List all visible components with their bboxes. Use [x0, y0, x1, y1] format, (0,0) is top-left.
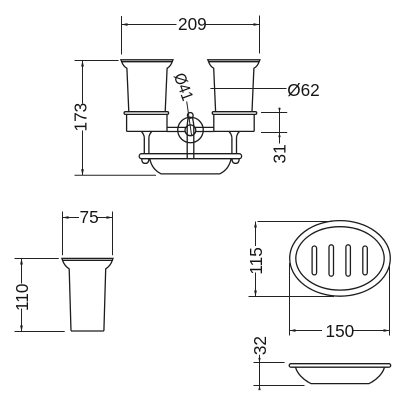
- dimension 209 extension line left: [121, 16, 123, 55]
- dimension D62 text: [287, 80, 320, 100]
- dimension 173 text: [70, 103, 90, 132]
- dimension 31 extension top: [261, 112, 287, 114]
- svg-text:110: 110: [12, 284, 32, 311]
- center neck and post: [187, 118, 194, 159]
- dimension 32 extension top: [254, 362, 285, 364]
- dimension 32 arrow bottom: [258, 386, 260, 391]
- slot 2: [329, 245, 334, 276]
- dimension 209 line: [122, 24, 260, 26]
- dimension 115 arrow top: [254, 222, 257, 228]
- right foot nut: [232, 159, 239, 164]
- dimension 173 arrow top: [81, 61, 84, 67]
- dimension 110 arrow top: [20, 259, 23, 265]
- dimension 115 line: [255, 222, 257, 297]
- soap dish outer ellipse: [290, 221, 391, 297]
- dimension 75 extension left: [62, 212, 64, 256]
- right support post: [232, 137, 237, 153]
- dimension 110 extension bottom: [15, 331, 65, 333]
- center ball finial: [187, 113, 193, 119]
- right tumbler body left side: [209, 62, 216, 112]
- left foot nut: [142, 159, 149, 164]
- single tumbler rim: [62, 258, 113, 260]
- right tumbler body right side: [252, 62, 259, 112]
- mounting bar: [139, 154, 241, 159]
- dimension 31 line: [279, 108, 281, 144]
- dimension 150 arrow left: [290, 329, 296, 332]
- dimension D41 leader: [187, 101, 192, 136]
- dimension 209 arrow left: [122, 23, 128, 26]
- left holder ring: [127, 114, 167, 131]
- right funnel under ring: [229, 132, 239, 138]
- left arm: [167, 127, 186, 131]
- svg-text:115: 115: [246, 247, 266, 274]
- dimension 209 text: [178, 14, 207, 34]
- dimension 32 text: [250, 336, 270, 355]
- left holder collar: [124, 112, 169, 115]
- boss circle: [185, 125, 196, 136]
- dimension 31 extension bottom: [261, 132, 287, 134]
- dimension 75 line: [63, 217, 113, 219]
- dimension 75 arrow left: [63, 216, 69, 219]
- dimension 173 line: [82, 61, 84, 176]
- svg-text:Ø41: Ø41: [170, 71, 196, 103]
- dimension 115 extension top: [258, 221, 333, 223]
- single tumbler right side: [104, 260, 112, 331]
- dimension 150 line: [290, 330, 390, 332]
- dish side bowl: [296, 367, 385, 383]
- svg-text:31: 31: [269, 144, 289, 163]
- svg-text:32: 32: [250, 336, 270, 355]
- left funnel under ring: [141, 132, 151, 138]
- dimension 110 text: [12, 284, 32, 311]
- dimension 110 line: [21, 259, 23, 332]
- dimension 32 extension bottom: [254, 385, 305, 387]
- dimension D41 text: [170, 71, 196, 103]
- dimension 31 text: [269, 144, 289, 163]
- left support post: [144, 137, 149, 153]
- dish side lip: [289, 364, 391, 368]
- dimension 209 arrow right: [254, 23, 260, 26]
- dimension 150 extension right: [389, 263, 391, 336]
- dimension 31 arrow bottom: [278, 133, 280, 138]
- svg-text:75: 75: [80, 207, 99, 227]
- wall flange circle: [178, 117, 204, 143]
- svg-text:Ø62: Ø62: [287, 80, 320, 100]
- dimension D62 leader: [210, 88, 286, 90]
- slot 1: [312, 246, 317, 275]
- dimension 115 text: [246, 247, 266, 274]
- left tumbler body right side: [165, 62, 172, 112]
- dimension 110 arrow bottom: [20, 326, 23, 332]
- right arm: [195, 127, 214, 131]
- dimension 75 arrow right: [107, 216, 113, 219]
- right tumbler rim: [208, 60, 260, 62]
- dimension 173 arrow bottom: [81, 169, 84, 175]
- dimension 173 extension bottom: [75, 174, 157, 176]
- dimension 31 arrow top: [278, 108, 280, 113]
- left tumbler body left side: [122, 62, 129, 112]
- slot 4: [363, 246, 368, 275]
- dimension 150 extension left: [289, 263, 291, 336]
- single tumbler left side: [63, 260, 71, 331]
- right holder collar: [212, 112, 257, 115]
- left tumbler rim: [121, 60, 173, 62]
- dimension 209 extension line right: [259, 16, 261, 54]
- dimension 150 text: [326, 321, 355, 341]
- dimension 32 line: [259, 355, 261, 390]
- svg-text:150: 150: [326, 321, 355, 341]
- svg-text:173: 173: [70, 103, 90, 132]
- slot 3: [346, 245, 351, 276]
- dimension 75 extension right: [112, 212, 114, 256]
- dimension 173 extension top: [75, 60, 119, 62]
- base dome: [150, 159, 231, 174]
- dimension 150 arrow right: [384, 329, 390, 332]
- right holder ring: [214, 114, 254, 131]
- dimension 115 arrow bottom: [254, 291, 257, 297]
- soap dish inner ellipse: [296, 227, 384, 290]
- dimension 110 extension top: [15, 258, 59, 260]
- single tumbler bottom: [71, 330, 104, 332]
- dimension 75 text: [80, 207, 99, 227]
- dimension 115 extension bottom: [249, 296, 335, 298]
- dimension 32 arrow top: [258, 358, 260, 363]
- svg-text:209: 209: [178, 14, 207, 34]
